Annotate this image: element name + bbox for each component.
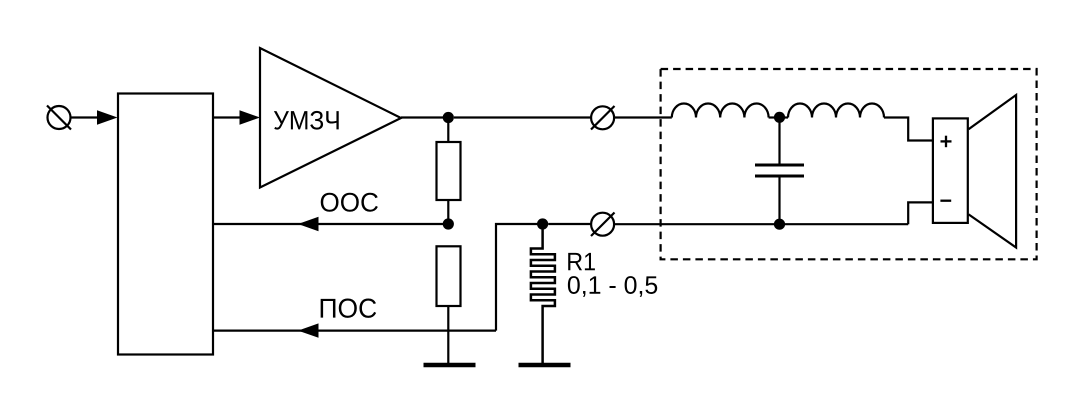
wire L2 to speaker plus step (884, 118, 933, 141)
wire top node to top connector (454, 116, 591, 118)
node A (amp output junction) (443, 112, 454, 123)
node D (filter top junction) (774, 112, 785, 123)
wire resistor to node B (447, 200, 449, 224)
label R1 (568, 253, 595, 270)
node B (OOC junction) (443, 218, 454, 229)
pin + (plus terminal) (941, 136, 952, 148)
wire bottom to speaker minus step (908, 202, 933, 224)
speaker BA1 body (933, 118, 968, 222)
op-amp U1 (УМЗЧ amplifier triangle) (260, 48, 401, 188)
capacitor C1 bottom wire (778, 178, 780, 225)
OOC wire (213, 223, 448, 225)
speaker horn (969, 95, 1017, 248)
connector (top output) (591, 106, 615, 130)
arrowhead into block (97, 110, 118, 124)
wire bottom connector into box (614, 223, 908, 225)
node E (filter bottom junction) (774, 219, 785, 230)
block (preamp/control unit) (118, 94, 213, 355)
capacitor C1 top wire (778, 118, 780, 164)
wire amp output (401, 116, 448, 118)
ground (left) (424, 363, 476, 368)
wire top connector into box (614, 116, 672, 118)
resistor (lower divider) (437, 246, 461, 306)
connector (bottom output) (591, 213, 615, 237)
label ООС (321, 193, 378, 212)
ground (right, under R1) (519, 363, 571, 368)
value 0,1 - 0,5 (568, 276, 657, 297)
dashed enclosure (crossover + speaker) (661, 69, 1037, 259)
node C (R1 junction) (537, 218, 548, 229)
wire resistor to ground (447, 306, 449, 365)
arrowhead into amp (240, 110, 261, 124)
pin - (minus terminal) (940, 200, 951, 202)
label ПОС (321, 299, 377, 318)
input connector XS1 (47, 106, 71, 130)
wire node A to R top (447, 118, 449, 143)
arrowhead POC (points left) (298, 323, 319, 337)
inductor L1 (672, 103, 769, 117)
wire node D to L2 (780, 116, 789, 118)
wire block to amp (213, 116, 243, 118)
inductor L2 (788, 104, 884, 118)
wire L1 to node D (769, 116, 780, 118)
wire node C to bottom connector (548, 223, 591, 225)
wire input to block (71, 116, 101, 118)
wire riser POC (496, 224, 543, 331)
resistor (upper divider) (437, 142, 461, 200)
arrowhead OOC (points left) (298, 217, 319, 231)
capacitor C1 plates (755, 165, 804, 176)
resistor R1 (wirewound meander) (531, 224, 555, 365)
label УМЗЧ (274, 111, 339, 130)
POC wire (213, 330, 496, 332)
